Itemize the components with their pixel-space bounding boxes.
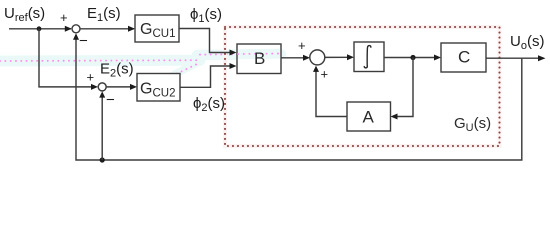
arrow into summer S2 (91, 84, 98, 90)
arrow into B upper (230, 50, 237, 56)
arrow into G_CU1 (128, 26, 135, 32)
svg-text:−: − (106, 92, 115, 109)
wire phi2: G_CU2 to B lower input (180, 66, 232, 87)
svg-text:−: − (79, 33, 88, 50)
wire C to output (486, 57, 542, 59)
arrow into G_CU2 (130, 84, 137, 90)
wire U_ref input (9, 28, 71, 30)
svg-text:ϕ1(s): ϕ1(s) (190, 6, 222, 25)
guide band (cyan highlighter) (0, 54, 281, 77)
output arrowhead (538, 55, 546, 61)
wire U_ref branch down to S2 (39, 29, 94, 87)
arrow up into S2 (99, 91, 105, 97)
svg-text:Uo(s): Uo(s) (510, 33, 544, 52)
node dot after integrator (410, 55, 415, 60)
boundary box G_U (red dotted) (225, 27, 500, 146)
svg-text:+: + (298, 38, 306, 53)
svg-text:ϕ2(s): ϕ2(s) (193, 95, 225, 114)
wire A to S3 (feedback up) (316, 70, 347, 117)
arrow up into S3 (313, 66, 319, 72)
svg-text:+: + (60, 10, 68, 25)
summer S3 (310, 50, 325, 65)
block integrator (354, 42, 384, 72)
summer S2 (98, 83, 106, 91)
svg-text:+: + (321, 67, 329, 82)
svg-text:A: A (363, 108, 375, 127)
guide line (pink dotted) (0, 54, 278, 76)
wire S1 to G_CU1 (80, 28, 134, 30)
svg-text:E1(s): E1(s) (87, 5, 121, 24)
wire main feedback from output (76, 35, 522, 160)
svg-text:B: B (254, 49, 265, 68)
summer S1 (72, 25, 80, 33)
block A (347, 102, 391, 131)
block C (441, 43, 486, 72)
svg-text:E2(s): E2(s) (100, 61, 134, 80)
node dot on feedback line (100, 157, 105, 162)
wire S3 to integrator (325, 56, 349, 58)
wire branch down to A (395, 58, 413, 117)
wire B to S3 (281, 57, 306, 59)
block G_CU1 (135, 15, 179, 42)
arrow into S3 (303, 55, 310, 61)
arrow into A (391, 114, 398, 120)
wire phi1: G_CU1 to B upper input (179, 29, 232, 53)
arrow up into S1 (73, 33, 79, 40)
block G_CU2 (137, 74, 180, 102)
svg-text:+: + (87, 70, 95, 85)
arrow into summer S1 (65, 26, 72, 32)
svg-text:C: C (458, 48, 470, 67)
node takeoff dot on U_ref line (37, 26, 42, 31)
wire feedback branch to S2 (101, 94, 103, 161)
wire S2 to G_CU2 (106, 86, 132, 88)
block B (237, 44, 281, 74)
arrow into C (434, 55, 441, 61)
arrow into integrator (347, 54, 354, 60)
wire integrator to C (384, 57, 436, 59)
guide marks inside block B (238, 49, 280, 59)
arrow into B lower (230, 63, 237, 69)
